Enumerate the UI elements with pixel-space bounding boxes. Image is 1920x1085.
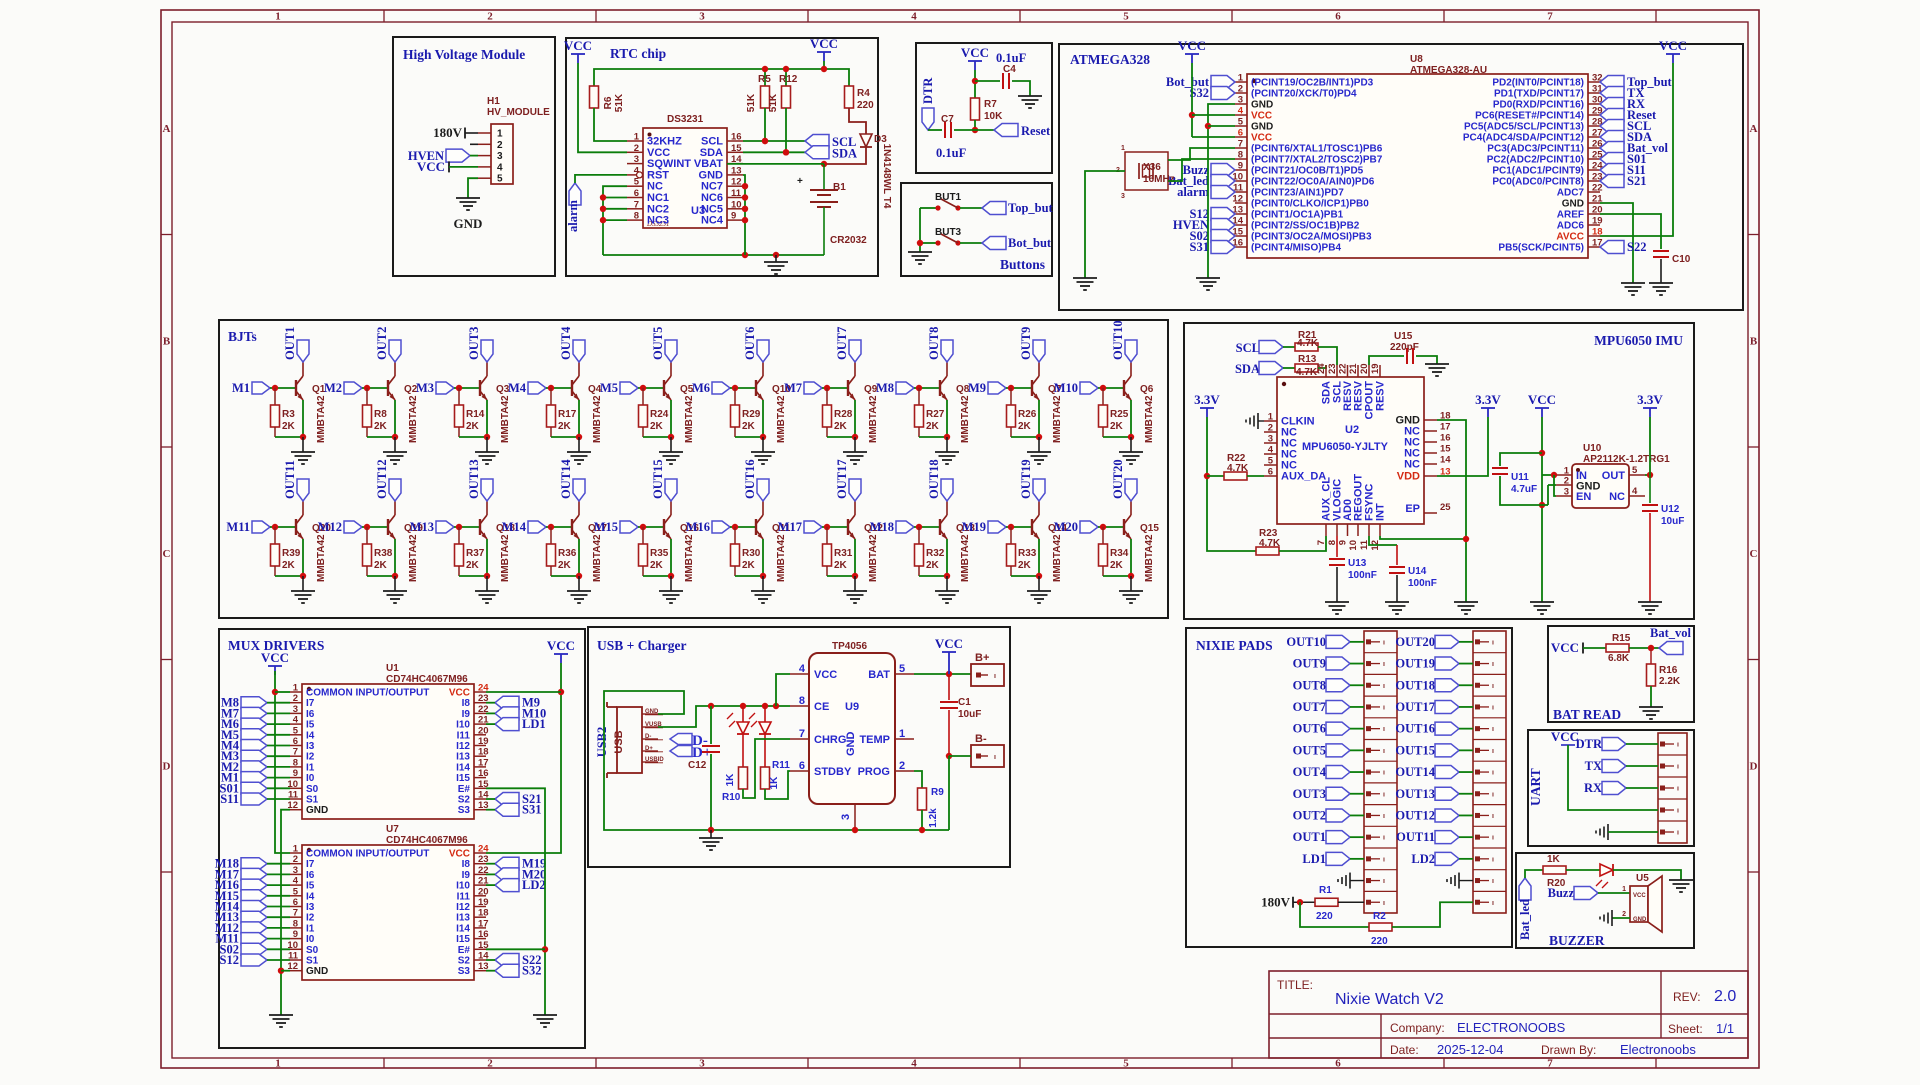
svg-text:4: 4 bbox=[1268, 445, 1274, 456]
svg-text:U10: U10 bbox=[1583, 443, 1602, 454]
svg-text:5: 5 bbox=[899, 663, 905, 675]
svg-text:20: 20 bbox=[478, 725, 489, 736]
svg-text:OUT20: OUT20 bbox=[1395, 635, 1435, 649]
svg-text:Q6: Q6 bbox=[1140, 384, 1154, 395]
svg-text:ı: ı bbox=[1383, 813, 1385, 820]
svg-text:7: 7 bbox=[293, 908, 298, 919]
svg-text:MMBTA42: MMBTA42 bbox=[500, 395, 511, 443]
svg-text:I2: I2 bbox=[306, 752, 315, 763]
svg-text:M3: M3 bbox=[416, 381, 434, 395]
svg-text:GND: GND bbox=[306, 805, 328, 816]
svg-text:C4: C4 bbox=[1003, 64, 1016, 75]
svg-text:SQWINT: SQWINT bbox=[647, 158, 691, 170]
svg-text:10: 10 bbox=[731, 199, 742, 210]
svg-text:Buzz: Buzz bbox=[1548, 886, 1575, 900]
svg-text:GND: GND bbox=[1633, 917, 1647, 923]
svg-text:VCC: VCC bbox=[647, 147, 670, 159]
svg-text:R10: R10 bbox=[722, 792, 741, 803]
svg-text:ı: ı bbox=[1677, 742, 1679, 749]
svg-text:Electronoobs: Electronoobs bbox=[1620, 1042, 1696, 1057]
svg-text:S0: S0 bbox=[306, 945, 319, 956]
svg-text:OUT6: OUT6 bbox=[1293, 722, 1326, 736]
svg-text:PD0(RXD/PCINT16): PD0(RXD/PCINT16) bbox=[1493, 100, 1584, 111]
svg-text:17: 17 bbox=[1440, 422, 1451, 433]
svg-text:6: 6 bbox=[293, 736, 298, 747]
svg-text:23: 23 bbox=[1327, 363, 1338, 374]
svg-text:OUT2: OUT2 bbox=[1293, 808, 1326, 822]
svg-text:S11: S11 bbox=[220, 792, 239, 806]
svg-text:10uF: 10uF bbox=[1661, 516, 1684, 527]
svg-text:5: 5 bbox=[1632, 465, 1638, 476]
svg-text:VCC: VCC bbox=[1178, 38, 1206, 53]
svg-text:ı: ı bbox=[1492, 639, 1494, 646]
svg-text:9: 9 bbox=[293, 768, 298, 779]
svg-text:C1: C1 bbox=[958, 697, 971, 708]
svg-text:U5: U5 bbox=[1636, 873, 1649, 884]
svg-text:ı: ı bbox=[1677, 786, 1679, 793]
svg-text:U14: U14 bbox=[1408, 566, 1427, 577]
svg-text:OUT14: OUT14 bbox=[1395, 765, 1435, 779]
svg-text:U1: U1 bbox=[386, 663, 399, 674]
svg-text:(PCINT3/OC2A/MOSI)PB3: (PCINT3/OC2A/MOSI)PB3 bbox=[1251, 232, 1372, 243]
svg-text:MMBTA42: MMBTA42 bbox=[868, 395, 879, 443]
svg-text:I13: I13 bbox=[456, 913, 470, 924]
svg-text:OUT6: OUT6 bbox=[743, 327, 757, 360]
svg-text:2: 2 bbox=[1564, 476, 1569, 487]
svg-text:6: 6 bbox=[799, 760, 805, 772]
svg-text:4: 4 bbox=[1632, 486, 1638, 497]
svg-text:EP: EP bbox=[1405, 503, 1420, 515]
svg-text:Bot_but: Bot_but bbox=[1008, 236, 1052, 250]
svg-text:S31: S31 bbox=[1190, 240, 1209, 254]
svg-text:S22: S22 bbox=[1627, 240, 1646, 254]
svg-text:(PCINT20/XCK/T0)PD4: (PCINT20/XCK/T0)PD4 bbox=[1251, 89, 1357, 100]
svg-text:15: 15 bbox=[1440, 444, 1451, 455]
svg-text:TEMP: TEMP bbox=[859, 734, 890, 746]
svg-text:AUX_DA: AUX_DA bbox=[1281, 471, 1326, 483]
svg-text:2K: 2K bbox=[282, 421, 296, 432]
svg-text:ı: ı bbox=[1492, 661, 1494, 668]
svg-text:51K: 51K bbox=[768, 93, 779, 112]
svg-text:I6: I6 bbox=[306, 709, 315, 720]
svg-text:H1: H1 bbox=[487, 96, 500, 107]
svg-text:(PCINT6/XTAL1/TOSC1)PB6: (PCINT6/XTAL1/TOSC1)PB6 bbox=[1251, 144, 1383, 155]
svg-text:OUT8: OUT8 bbox=[1293, 678, 1326, 692]
svg-text:I1: I1 bbox=[306, 923, 315, 934]
svg-text:OUT15: OUT15 bbox=[651, 459, 665, 499]
svg-text:INT: INT bbox=[1375, 503, 1387, 521]
svg-text:BAT READ: BAT READ bbox=[1553, 707, 1621, 722]
svg-text:PC5(ADC5/SCL/PCINT13): PC5(ADC5/SCL/PCINT13) bbox=[1464, 122, 1584, 133]
svg-text:I8: I8 bbox=[462, 859, 471, 870]
svg-text:M15: M15 bbox=[594, 520, 618, 534]
svg-text:I1: I1 bbox=[306, 762, 315, 773]
svg-text:(PCINT2/SS/OC1B)PB2: (PCINT2/SS/OC1B)PB2 bbox=[1251, 221, 1360, 232]
svg-text:ı: ı bbox=[1383, 704, 1385, 711]
svg-text:S21: S21 bbox=[1627, 174, 1646, 188]
svg-text:2.0: 2.0 bbox=[1714, 988, 1736, 1005]
svg-text:alarm: alarm bbox=[1177, 185, 1210, 199]
svg-text:OUT9: OUT9 bbox=[1019, 327, 1033, 360]
svg-text:LD2: LD2 bbox=[522, 878, 546, 892]
svg-text:M14: M14 bbox=[502, 520, 527, 534]
svg-text:BJTs: BJTs bbox=[228, 329, 257, 344]
svg-text:7: 7 bbox=[1316, 540, 1327, 545]
svg-text:25: 25 bbox=[1440, 502, 1451, 513]
svg-text:3: 3 bbox=[699, 1058, 705, 1070]
svg-text:VCC: VCC bbox=[564, 38, 592, 53]
svg-text:MMBTA42: MMBTA42 bbox=[408, 395, 419, 443]
svg-text:B: B bbox=[1750, 336, 1758, 348]
svg-text:LD1: LD1 bbox=[1302, 852, 1326, 866]
svg-text:1: 1 bbox=[293, 844, 299, 855]
svg-text:1.2k: 1.2k bbox=[928, 808, 939, 828]
svg-text:2K: 2K bbox=[466, 560, 480, 571]
svg-text:I15: I15 bbox=[456, 773, 470, 784]
svg-text:MMBTA42: MMBTA42 bbox=[776, 395, 787, 443]
svg-text:ı: ı bbox=[1383, 748, 1385, 755]
svg-text:VCC: VCC bbox=[810, 36, 838, 51]
svg-text:2K: 2K bbox=[926, 560, 940, 571]
svg-text:SDA: SDA bbox=[700, 147, 723, 159]
svg-text:(PCINT21/OC0B/T1)PD5: (PCINT21/OC0B/T1)PD5 bbox=[1251, 166, 1364, 177]
svg-text:R32: R32 bbox=[926, 548, 945, 559]
svg-text:OUT5: OUT5 bbox=[1293, 743, 1326, 757]
svg-text:CE: CE bbox=[814, 701, 829, 713]
svg-text:GND: GND bbox=[1251, 100, 1273, 111]
svg-text:ı: ı bbox=[994, 754, 996, 761]
svg-text:2.2K: 2.2K bbox=[1659, 676, 1681, 687]
svg-text:OUT14: OUT14 bbox=[559, 459, 573, 499]
svg-text:GND: GND bbox=[1251, 122, 1273, 133]
svg-text:MMBTA42: MMBTA42 bbox=[592, 534, 603, 582]
svg-text:USB + Charger: USB + Charger bbox=[597, 638, 686, 653]
svg-text:3: 3 bbox=[699, 11, 705, 23]
svg-text:ı: ı bbox=[1492, 770, 1494, 777]
svg-text:OUT11: OUT11 bbox=[1396, 830, 1435, 844]
svg-text:VCC: VCC bbox=[814, 669, 837, 681]
svg-text:I14: I14 bbox=[456, 923, 470, 934]
svg-text:ı: ı bbox=[1492, 683, 1494, 690]
svg-text:7: 7 bbox=[634, 199, 639, 210]
svg-text:ELECTRONOOBS: ELECTRONOOBS bbox=[1457, 1020, 1566, 1035]
svg-text:R6: R6 bbox=[603, 96, 614, 109]
svg-text:R3: R3 bbox=[282, 409, 295, 420]
svg-text:S2: S2 bbox=[458, 795, 471, 806]
svg-text:VCC: VCC bbox=[449, 849, 470, 860]
svg-text:ı: ı bbox=[994, 673, 996, 680]
svg-text:180V: 180V bbox=[1261, 894, 1291, 909]
svg-text:1: 1 bbox=[634, 132, 640, 143]
svg-text:MPU6050 IMU: MPU6050 IMU bbox=[1594, 333, 1683, 348]
svg-text:3: 3 bbox=[634, 154, 639, 165]
svg-text:7: 7 bbox=[1238, 139, 1243, 150]
svg-text:RTC chip: RTC chip bbox=[610, 46, 666, 61]
svg-text:2: 2 bbox=[293, 693, 298, 704]
svg-text:4.7K: 4.7K bbox=[1297, 338, 1319, 349]
svg-text:CR2032: CR2032 bbox=[830, 235, 867, 246]
svg-text:M7: M7 bbox=[784, 381, 802, 395]
svg-text:C7: C7 bbox=[941, 114, 954, 125]
svg-text:9: 9 bbox=[1238, 161, 1243, 172]
svg-text:TX: TX bbox=[1585, 759, 1602, 773]
svg-text:3: 3 bbox=[293, 704, 298, 715]
svg-text:ı: ı bbox=[1492, 900, 1494, 907]
svg-text:R11: R11 bbox=[772, 760, 790, 771]
svg-text:2: 2 bbox=[487, 1058, 493, 1070]
svg-text:I4: I4 bbox=[306, 891, 315, 902]
svg-text:VCC: VCC bbox=[961, 45, 989, 60]
svg-text:I5: I5 bbox=[306, 881, 315, 892]
svg-text:MMBTA42: MMBTA42 bbox=[684, 534, 695, 582]
svg-text:M10: M10 bbox=[1054, 381, 1078, 395]
svg-text:ı: ı bbox=[1677, 830, 1679, 837]
svg-text:6: 6 bbox=[1268, 467, 1273, 478]
svg-text:REV:: REV: bbox=[1673, 990, 1701, 1004]
svg-text:TITLE:: TITLE: bbox=[1277, 978, 1313, 992]
svg-text:2025-12-04: 2025-12-04 bbox=[1437, 1042, 1504, 1057]
svg-text:VCC: VCC bbox=[1251, 133, 1272, 144]
svg-text:3.3V: 3.3V bbox=[1637, 392, 1663, 407]
svg-text:MMBTA42: MMBTA42 bbox=[1144, 395, 1155, 443]
svg-text:I0: I0 bbox=[306, 773, 315, 784]
svg-text:M5: M5 bbox=[600, 381, 618, 395]
svg-text:MMBTA42: MMBTA42 bbox=[592, 395, 603, 443]
svg-text:MMBTA42: MMBTA42 bbox=[316, 395, 327, 443]
svg-text:ı: ı bbox=[1492, 878, 1494, 885]
svg-text:MMBTA42: MMBTA42 bbox=[960, 534, 971, 582]
svg-text:Top_but: Top_but bbox=[1008, 201, 1054, 215]
svg-text:I7: I7 bbox=[306, 859, 315, 870]
svg-text:OUT4: OUT4 bbox=[559, 326, 573, 360]
svg-text:ı: ı bbox=[1492, 813, 1494, 820]
svg-text:4.7K: 4.7K bbox=[1227, 463, 1249, 474]
svg-text:OUT15: OUT15 bbox=[1395, 743, 1435, 757]
svg-text:ı: ı bbox=[1492, 856, 1494, 863]
svg-text:M1: M1 bbox=[232, 381, 250, 395]
svg-text:2K: 2K bbox=[374, 421, 388, 432]
svg-text:M19: M19 bbox=[962, 520, 986, 534]
svg-text:OUT4: OUT4 bbox=[1293, 765, 1327, 779]
svg-text:2K: 2K bbox=[926, 421, 940, 432]
svg-text:S2: S2 bbox=[458, 956, 471, 967]
svg-text:D: D bbox=[1750, 761, 1758, 773]
svg-text:AVCC: AVCC bbox=[1556, 232, 1584, 243]
svg-text:1: 1 bbox=[497, 129, 503, 140]
svg-text:(PCINT7/XTAL2/TOSC2)PB7: (PCINT7/XTAL2/TOSC2)PB7 bbox=[1251, 155, 1383, 166]
svg-text:1/1: 1/1 bbox=[1716, 1021, 1734, 1036]
svg-text:U9: U9 bbox=[845, 701, 859, 713]
svg-text:MMBTA42: MMBTA42 bbox=[868, 534, 879, 582]
svg-text:U13: U13 bbox=[1348, 558, 1367, 569]
svg-text:VCC: VCC bbox=[449, 688, 470, 699]
svg-text:+: + bbox=[797, 176, 803, 187]
svg-text:LD2: LD2 bbox=[1411, 852, 1435, 866]
svg-text:NC6: NC6 bbox=[701, 192, 723, 204]
svg-text:M16: M16 bbox=[686, 520, 710, 534]
svg-text:I2: I2 bbox=[306, 913, 315, 924]
svg-text:10K: 10K bbox=[984, 111, 1003, 122]
svg-text:NC3: NC3 bbox=[647, 215, 669, 227]
svg-text:21: 21 bbox=[1348, 363, 1359, 374]
svg-text:VCC: VCC bbox=[547, 638, 575, 653]
svg-text:MMBTA42: MMBTA42 bbox=[408, 534, 419, 582]
svg-text:I10: I10 bbox=[456, 881, 470, 892]
svg-text:22: 22 bbox=[1338, 363, 1349, 374]
svg-text:B1: B1 bbox=[833, 182, 846, 193]
svg-text:I7: I7 bbox=[306, 698, 315, 709]
svg-text:C: C bbox=[1750, 548, 1758, 560]
svg-text:S1: S1 bbox=[306, 795, 319, 806]
svg-text:D+: D+ bbox=[645, 746, 653, 752]
svg-text:MMBTA42: MMBTA42 bbox=[1144, 534, 1155, 582]
svg-text:R33: R33 bbox=[1018, 548, 1037, 559]
svg-text:4: 4 bbox=[497, 162, 503, 173]
svg-text:OUT18: OUT18 bbox=[927, 459, 941, 499]
svg-text:Date:: Date: bbox=[1390, 1043, 1419, 1057]
svg-text:I11: I11 bbox=[457, 730, 471, 741]
svg-text:R34: R34 bbox=[1110, 548, 1129, 559]
svg-text:AREF: AREF bbox=[1557, 210, 1584, 221]
svg-text:16: 16 bbox=[478, 768, 489, 779]
svg-text:0.1uF: 0.1uF bbox=[936, 146, 967, 160]
svg-text:Nixie Watch V2: Nixie Watch V2 bbox=[1335, 991, 1444, 1008]
svg-text:5: 5 bbox=[497, 174, 503, 185]
svg-text:R12: R12 bbox=[779, 74, 798, 85]
svg-text:USB: USB bbox=[613, 730, 625, 753]
svg-text:SCL: SCL bbox=[1236, 341, 1260, 355]
svg-text:4: 4 bbox=[911, 1058, 917, 1070]
svg-text:VCC: VCC bbox=[1551, 640, 1579, 655]
svg-text:OUT17: OUT17 bbox=[835, 459, 849, 499]
svg-text:18: 18 bbox=[478, 747, 489, 758]
svg-text:BUZZER: BUZZER bbox=[1549, 933, 1605, 948]
svg-text:2: 2 bbox=[497, 140, 503, 151]
svg-text:R8: R8 bbox=[374, 409, 387, 420]
svg-text:VCC: VCC bbox=[1251, 111, 1272, 122]
svg-text:VDD: VDD bbox=[1397, 471, 1420, 483]
svg-text:R9: R9 bbox=[931, 787, 944, 798]
svg-text:COMMON INPUT/OUTPUT: COMMON INPUT/OUTPUT bbox=[306, 849, 429, 860]
svg-text:4: 4 bbox=[1238, 106, 1244, 117]
svg-text:8: 8 bbox=[293, 918, 298, 929]
svg-text:R24: R24 bbox=[650, 409, 669, 420]
svg-text:ı: ı bbox=[1383, 726, 1385, 733]
svg-text:ı: ı bbox=[1383, 770, 1385, 777]
svg-text:COMMON INPUT/OUTPUT: COMMON INPUT/OUTPUT bbox=[306, 688, 429, 699]
svg-text:M13: M13 bbox=[410, 520, 434, 534]
svg-text:X36: X36 bbox=[1143, 162, 1161, 173]
svg-text:TP4056: TP4056 bbox=[832, 641, 867, 652]
svg-text:R4: R4 bbox=[857, 88, 870, 99]
svg-text:3: 3 bbox=[840, 814, 852, 820]
svg-text:ı: ı bbox=[1492, 726, 1494, 733]
svg-text:E#: E# bbox=[458, 784, 471, 795]
svg-text:3: 3 bbox=[1564, 487, 1569, 498]
svg-text:4: 4 bbox=[293, 876, 299, 887]
svg-text:U11: U11 bbox=[1511, 472, 1529, 483]
svg-text:I5: I5 bbox=[306, 720, 315, 731]
svg-text:2K: 2K bbox=[1110, 421, 1124, 432]
svg-text:18: 18 bbox=[478, 908, 489, 919]
svg-text:MMBTA42: MMBTA42 bbox=[500, 534, 511, 582]
svg-text:OUT3: OUT3 bbox=[467, 327, 481, 360]
svg-text:HV_MODULE: HV_MODULE bbox=[487, 107, 550, 118]
svg-text:220: 220 bbox=[857, 100, 874, 111]
svg-text:U15: U15 bbox=[1394, 331, 1413, 342]
svg-text:19: 19 bbox=[1370, 363, 1381, 374]
svg-text:ı: ı bbox=[1492, 835, 1494, 842]
svg-text:2K: 2K bbox=[558, 560, 572, 571]
svg-text:ı: ı bbox=[1383, 835, 1385, 842]
svg-text:Buttons: Buttons bbox=[1000, 257, 1045, 272]
svg-text:OUT17: OUT17 bbox=[1395, 700, 1435, 714]
svg-text:6.8K: 6.8K bbox=[1608, 653, 1630, 664]
svg-text:BUT3: BUT3 bbox=[935, 227, 962, 238]
svg-text:20: 20 bbox=[478, 886, 489, 897]
svg-text:I9: I9 bbox=[462, 870, 471, 881]
svg-text:ADC6: ADC6 bbox=[1557, 221, 1585, 232]
svg-text:OUT9: OUT9 bbox=[1293, 657, 1326, 671]
svg-text:ı: ı bbox=[1492, 704, 1494, 711]
svg-text:17: 17 bbox=[478, 757, 489, 768]
svg-text:1K: 1K bbox=[725, 773, 736, 787]
svg-text:1: 1 bbox=[1268, 412, 1274, 423]
svg-text:3: 3 bbox=[1121, 193, 1125, 200]
svg-text:OUT16: OUT16 bbox=[1395, 722, 1435, 736]
svg-text:(PCINT19/OC2B/INT1)PD3: (PCINT19/OC2B/INT1)PD3 bbox=[1251, 78, 1374, 89]
svg-text:9: 9 bbox=[1338, 540, 1349, 545]
svg-text:BAT: BAT bbox=[868, 669, 890, 681]
svg-text:5: 5 bbox=[293, 886, 299, 897]
svg-text:1: 1 bbox=[899, 728, 905, 740]
svg-text:R37: R37 bbox=[466, 548, 485, 559]
svg-text:S1: S1 bbox=[306, 956, 319, 967]
svg-text:R17: R17 bbox=[558, 409, 577, 420]
svg-text:Bat_led: Bat_led bbox=[1518, 899, 1532, 940]
svg-text:220: 220 bbox=[1316, 911, 1333, 922]
svg-text:VCC: VCC bbox=[1633, 893, 1646, 899]
svg-text:M8: M8 bbox=[876, 381, 894, 395]
svg-text:22: 22 bbox=[1592, 183, 1603, 194]
svg-text:100nF: 100nF bbox=[1348, 570, 1377, 581]
svg-text:4.7uF: 4.7uF bbox=[1511, 484, 1537, 495]
svg-text:7: 7 bbox=[1547, 11, 1553, 23]
svg-text:(PCINT23/AIN1)PD7: (PCINT23/AIN1)PD7 bbox=[1251, 188, 1344, 199]
svg-text:1: 1 bbox=[293, 683, 299, 694]
svg-text:NC: NC bbox=[647, 181, 663, 193]
svg-text:2K: 2K bbox=[650, 421, 664, 432]
svg-text:R5: R5 bbox=[758, 74, 771, 85]
svg-text:GND: GND bbox=[699, 169, 724, 181]
svg-text:NIXIE PADS: NIXIE PADS bbox=[1196, 638, 1273, 653]
svg-text:2K: 2K bbox=[374, 560, 388, 571]
svg-text:6: 6 bbox=[1335, 1058, 1341, 1070]
svg-text:GND: GND bbox=[645, 709, 659, 715]
svg-text:VCC: VCC bbox=[935, 636, 963, 651]
svg-text:M2: M2 bbox=[324, 381, 342, 395]
svg-text:MMBTA42: MMBTA42 bbox=[1052, 395, 1063, 443]
svg-text:M20: M20 bbox=[1054, 520, 1078, 534]
svg-text:6: 6 bbox=[293, 897, 298, 908]
svg-text:C10: C10 bbox=[1672, 254, 1691, 265]
svg-text:180V: 180V bbox=[433, 125, 463, 140]
svg-text:8: 8 bbox=[799, 695, 805, 707]
svg-text:I10: I10 bbox=[456, 720, 470, 731]
svg-text:OUT: OUT bbox=[1602, 470, 1626, 482]
svg-text:2K: 2K bbox=[834, 560, 848, 571]
svg-text:S0: S0 bbox=[306, 784, 319, 795]
